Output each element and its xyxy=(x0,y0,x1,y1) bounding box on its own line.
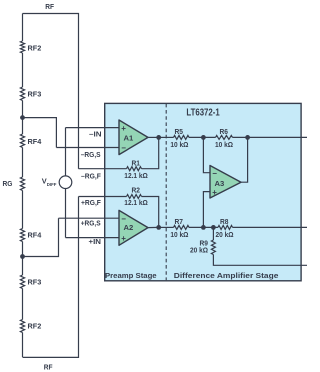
svg-text:RF: RF xyxy=(44,362,53,371)
node R7/R8 junction xyxy=(201,225,206,230)
node junction top (string tap) xyxy=(20,115,25,120)
svg-text:+IN: +IN xyxy=(89,237,102,246)
svg-text:−: − xyxy=(121,214,126,223)
svg-text:R5: R5 xyxy=(175,127,184,136)
resistor R8 20k xyxy=(218,225,233,229)
svg-text:RF2: RF2 xyxy=(28,322,42,331)
resistor R1 12.1k xyxy=(127,167,142,171)
svg-text:+: + xyxy=(121,234,126,243)
wire A1 output xyxy=(148,136,159,138)
wire -RG,S xyxy=(56,147,119,149)
svg-text:Difference Amplifier Stage: Difference Amplifier Stage xyxy=(174,271,279,280)
wire A3 minus input xyxy=(203,137,210,172)
svg-text:−: − xyxy=(212,169,217,178)
wire RF bottom xyxy=(23,197,79,358)
svg-text:–RG,S: –RG,S xyxy=(81,150,101,159)
svg-text:RG: RG xyxy=(3,179,13,188)
svg-text:+: + xyxy=(212,188,217,197)
svg-text:20 kΩ: 20 kΩ xyxy=(216,230,234,239)
wire +RG,S xyxy=(59,217,120,219)
svg-text:R2: R2 xyxy=(132,185,141,194)
wire R9 bottom to output xyxy=(213,255,307,266)
wire A2out to R7 xyxy=(159,226,174,228)
wire R1 to A1 output xyxy=(142,137,159,168)
resistor R9 20k vertical xyxy=(212,227,214,240)
wire tap to +RG,S xyxy=(23,218,59,256)
wire R6 to output xyxy=(233,136,308,138)
wire left string vertical segments xyxy=(22,14,24,42)
svg-text:12.1 kΩ: 12.1 kΩ xyxy=(124,198,148,207)
svg-text:A1: A1 xyxy=(124,133,134,142)
node A1 out xyxy=(156,135,161,140)
resistor R6 10k xyxy=(216,135,233,139)
wire +IN xyxy=(66,237,120,239)
svg-text:R8: R8 xyxy=(220,217,229,226)
wire R5 to R6 xyxy=(189,136,216,138)
node A2 out xyxy=(156,225,161,230)
svg-text:10 kΩ: 10 kΩ xyxy=(170,140,188,149)
wire -RG,F with resistor R1 xyxy=(79,168,127,170)
resistor RF4 (top) xyxy=(20,134,24,148)
op-amp A3 xyxy=(210,166,241,199)
svg-text:Preamp Stage: Preamp Stage xyxy=(105,271,157,280)
node R5/R6 junction xyxy=(201,135,206,140)
svg-text:DIFF: DIFF xyxy=(47,182,57,188)
source VDIFF xyxy=(65,128,67,176)
svg-text:10 kΩ: 10 kΩ xyxy=(215,140,233,149)
wire R2 to A2 output xyxy=(142,197,159,228)
op-amp A1 xyxy=(119,120,148,155)
svg-text:RF: RF xyxy=(45,2,54,11)
resistor RF4 (bottom) xyxy=(20,229,24,242)
wire A3 plus input xyxy=(203,192,210,228)
wire A3 output up to R6 junction xyxy=(241,137,248,182)
node junction bottom (string tap) xyxy=(20,254,25,259)
svg-text:RF4: RF4 xyxy=(28,230,43,239)
wire R8 to ref output xyxy=(233,226,308,228)
resistor RF3 (bottom) xyxy=(20,275,24,289)
svg-text:+: + xyxy=(121,124,126,133)
svg-text:12.1 kΩ: 12.1 kΩ xyxy=(124,171,148,180)
resistor RG xyxy=(20,177,24,191)
svg-text:LT6372-1: LT6372-1 xyxy=(186,108,219,119)
resistor R2 12.1k xyxy=(127,195,142,199)
IC block LT6372-1 xyxy=(105,103,301,280)
stage separator dashed line xyxy=(165,104,167,280)
wire R7 to R8 xyxy=(189,226,218,228)
op-amp A2 xyxy=(119,210,148,245)
wire -IN xyxy=(66,127,120,129)
svg-text:10 kΩ: 10 kΩ xyxy=(170,230,188,239)
svg-text:RF3: RF3 xyxy=(28,89,42,98)
svg-text:RF3: RF3 xyxy=(28,277,42,286)
resistor RF2 (bottom) xyxy=(20,320,24,333)
svg-text:−: − xyxy=(121,143,126,152)
svg-text:R7: R7 xyxy=(175,217,184,226)
node R6/A3out junction xyxy=(245,135,250,140)
svg-text:A3: A3 xyxy=(215,179,225,188)
wire +RG,F with resistor R2 xyxy=(79,196,127,198)
resistor RF2 (top) xyxy=(20,41,24,53)
svg-text:–IN: –IN xyxy=(89,130,102,139)
wire RF top xyxy=(23,14,79,169)
svg-text:RF2: RF2 xyxy=(28,44,42,53)
svg-text:20 kΩ: 20 kΩ xyxy=(190,246,208,255)
svg-text:R6: R6 xyxy=(220,127,229,136)
wire A1out to R5 xyxy=(159,136,174,138)
svg-text:+RG,F: +RG,F xyxy=(81,198,101,207)
node R9 tap junction xyxy=(211,225,216,230)
svg-text:–RG,F: –RG,F xyxy=(81,171,101,180)
resistor RF3 (top) xyxy=(20,87,24,101)
wire tap to -RG,S xyxy=(23,118,57,148)
svg-text:+RG,S: +RG,S xyxy=(81,218,101,227)
resistor R7 10k xyxy=(174,225,190,229)
svg-text:A2: A2 xyxy=(124,223,134,232)
resistor R5 10k xyxy=(174,135,190,139)
svg-text:R1: R1 xyxy=(132,158,141,167)
svg-text:RF4: RF4 xyxy=(28,137,43,146)
wire A2 output xyxy=(148,226,159,228)
